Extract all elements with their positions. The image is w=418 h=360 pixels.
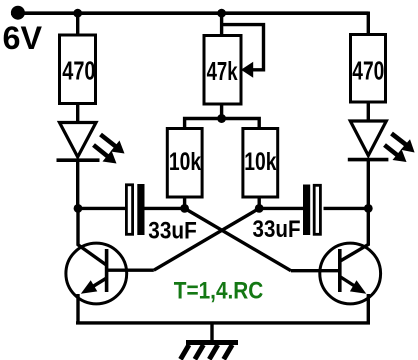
wire: R4 bottom to LED D2 anode (367, 102, 370, 123)
wire: Q1 base lead (107, 269, 154, 272)
6V supply terminal dot (11, 6, 25, 20)
node B: R2 bottom / C1 / cross wire (180, 204, 189, 213)
wire: C1 right plate to node B (145, 207, 185, 210)
R3 value 10k (244, 148, 276, 176)
resistor R3 10k (243, 129, 278, 198)
formula label T=1,4.RC (174, 278, 264, 305)
svg-text:470: 470 (352, 55, 384, 85)
svg-text:33uF: 33uF (253, 216, 301, 243)
wire: R3 bottom to node D (258, 197, 261, 208)
R4 value 470 (352, 55, 384, 85)
R1 value 470 (62, 56, 95, 86)
P1 value 47k (207, 56, 238, 86)
node E: D2 cathode / C2 / Q2 collector (364, 204, 373, 213)
wire: bottom rail (76, 321, 370, 324)
C1 value 33uF (148, 218, 197, 245)
wire: node A down to Q1 collector bend (76, 208, 79, 245)
transistor Q1 (66, 243, 127, 304)
wire: R2 bottom to node B (183, 197, 186, 208)
wire: rail to R1 top (76, 13, 79, 36)
svg-text:T=1,4.RC: T=1,4.RC (174, 278, 264, 305)
node D: R3 bottom / C2 / cross wire (255, 204, 264, 213)
wire: P1 bottom to node C (220, 103, 223, 119)
wire: rail to P1 top (220, 13, 223, 37)
wire: node A to C1 left plate (78, 207, 126, 210)
wire: C2 right plate to node E (324, 207, 369, 210)
wire: cross-coupling node B to Q2 base (185, 208, 291, 270)
wire: D2 cathode down through node E to Q2 collector bend (367, 160, 370, 246)
resistor R1 470 (60, 35, 96, 104)
resistor R4 470 (351, 35, 386, 103)
potentiometer P1 47k (204, 36, 241, 105)
node A: D1 cathode / C1 / Q1 collector (74, 204, 83, 213)
svg-text:10k: 10k (244, 148, 276, 176)
wire: D1 cathode down to node A (76, 160, 79, 208)
R2 value 10k (169, 148, 201, 176)
wire: ground stub (210, 323, 213, 342)
resistor R2 10k (167, 129, 202, 198)
ground (181, 343, 239, 360)
node: top rail / R1 junction (73, 9, 82, 18)
wire: Q2 emitter down to bottom rail (367, 294, 370, 325)
6V label (3, 20, 43, 56)
node: top rail / P1 junction (217, 9, 226, 18)
transistor Q2 (320, 243, 381, 304)
wire: rail right corner down to R4 (367, 13, 369, 35)
svg-text:47k: 47k (207, 56, 238, 86)
node C: P1 bottom / R2 / R3 (217, 114, 226, 123)
wire: R1 bottom to LED D1 anode (76, 103, 79, 124)
wire: top supply rail (11, 11, 369, 15)
LED D2 (348, 121, 389, 160)
wire: node C horizontal to R2 and R3 tops (185, 119, 260, 130)
wire: Q2 base lead (291, 269, 340, 272)
capacitor C2 33uF (303, 185, 320, 236)
capacitor C1 33uF (126, 184, 144, 235)
D1 light emission arrows (94, 135, 125, 164)
wire: node D to C2 left plate (259, 207, 303, 210)
svg-text:6V: 6V (3, 20, 43, 56)
D2 light emission arrows (385, 134, 415, 163)
svg-text:33uF: 33uF (148, 218, 197, 245)
svg-text:470: 470 (62, 56, 95, 86)
LED D1 (57, 123, 100, 161)
P1 wiper wire and arrow (222, 25, 264, 78)
wire: Q1 emitter down to bottom rail (76, 294, 79, 325)
svg-text:10k: 10k (169, 148, 201, 176)
wire: cross-coupling node D to Q1 base (154, 208, 259, 270)
C2 value 33uF (253, 216, 301, 243)
